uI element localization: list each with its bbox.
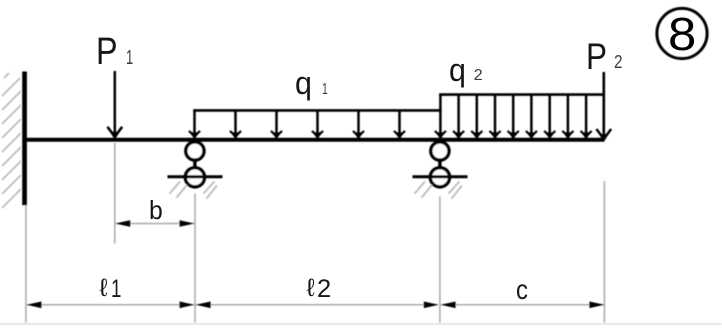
q2 risers [440,95,586,134]
roller support 2 [413,142,468,198]
extension line at roller 1 [194,194,196,323]
label q1 [295,67,312,99]
dimension line l1 [27,304,194,306]
label b [149,197,163,223]
task number badge digit 8 [668,11,696,57]
label q2 subscript [474,68,483,84]
q2 arrowheads [435,131,446,139]
faint page rule at bottom [0,323,722,325]
distributed load q1 top line [193,109,441,112]
q1 risers [195,110,400,133]
q1 arrowheads [189,131,200,139]
dimension line c [441,304,604,306]
label P2 [586,38,607,75]
task number badge circle [657,8,707,58]
distributed load q2 top line [439,93,604,96]
extension line at wall [25,205,27,323]
label l2 script ell [307,276,315,301]
wall hatching [3,74,21,208]
dimension b [116,223,194,225]
label P1 subscript [126,48,133,68]
extension line at roller 2 [439,197,441,323]
label q1 subscript [322,82,328,98]
force P1 arrow [114,71,117,134]
roller support 1 [168,142,223,198]
beam [27,138,604,142]
label P2 subscript [614,53,623,71]
label l1 digit [111,277,121,302]
label c [516,276,528,304]
label q2 [449,54,466,86]
label l1 script ell [99,276,107,301]
force P2 arrow [602,72,605,136]
fixed support wall [22,72,27,206]
extension line under P1 [114,143,116,244]
dimension line l2 [196,304,438,306]
label l2 digit [317,277,331,302]
label P1 [96,33,118,71]
extension line at beam end [603,181,605,323]
